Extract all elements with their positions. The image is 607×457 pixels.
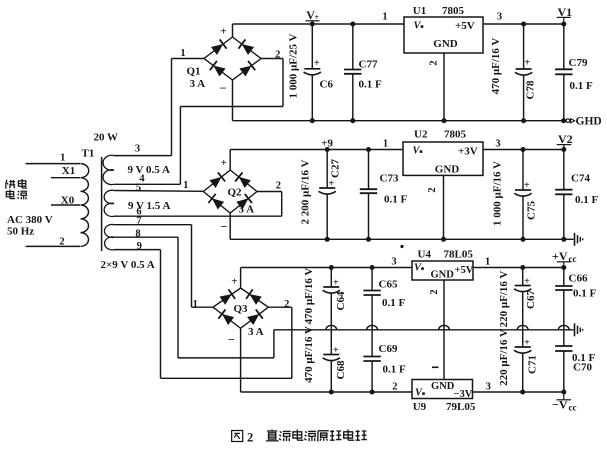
regulator U2 7805 — [403, 129, 483, 176]
svg-text:GHD: GHD — [576, 116, 602, 128]
svg-text:470 μF/16 V: 470 μF/16 V — [303, 326, 315, 383]
label 9 V 0.5 A — [128, 164, 170, 176]
svg-text:2 200 μF/16 V: 2 200 μF/16 V — [300, 159, 312, 224]
wire winding9 to Q3 pin2 — [114, 250, 292, 379]
bridge rectifier Q1 — [180, 26, 280, 96]
wire winding3 to Q1 pin1 — [114, 59, 204, 156]
label 2x9 V 0.5 A — [101, 259, 155, 271]
label 470 uF/16 V C64 — [303, 268, 315, 325]
label C66 value — [573, 288, 597, 300]
svg-text:C65: C65 — [379, 279, 398, 291]
middle ground symbol — [564, 233, 583, 246]
node +Vcc — [552, 249, 577, 270]
label C74 value — [575, 194, 599, 206]
svg-text:−3V: −3V — [454, 389, 473, 400]
node V+ — [306, 8, 320, 27]
node V2 — [557, 132, 573, 152]
capacitor C64 — [323, 265, 347, 330]
label T1 — [82, 148, 95, 160]
svg-text:Q3: Q3 — [234, 303, 249, 315]
node -Vcc — [552, 392, 577, 413]
svg-text:9 V 0.5 A: 9 V 0.5 A — [128, 164, 170, 176]
svg-text:X0: X0 — [61, 194, 75, 206]
svg-text:7805: 7805 — [442, 5, 465, 17]
svg-text:−: − — [220, 81, 227, 95]
svg-text:470 μF/16 V: 470 μF/16 V — [303, 268, 315, 325]
wire V+ rail — [233, 23, 564, 25]
label 2 200 uF/16 V — [300, 159, 312, 224]
svg-text:2: 2 — [247, 431, 253, 445]
capacitor C79 — [555, 24, 572, 123]
svg-text:cc: cc — [569, 254, 577, 264]
wire U1 pin 2 to ground rail — [442, 53, 447, 123]
transformer T1 core — [101, 157, 103, 251]
svg-text:3 A: 3 A — [190, 78, 206, 90]
wire hop C64 column — [326, 325, 337, 329]
wire Q3 plus to +Vcc rail — [240, 268, 242, 289]
wire +9 rail — [230, 149, 564, 151]
svg-text:1: 1 — [485, 256, 490, 267]
svg-text:GND: GND — [431, 270, 455, 281]
label X1 — [62, 165, 75, 177]
svg-text:C6: C6 — [320, 79, 334, 91]
svg-text:AC 380 V: AC 380 V — [7, 214, 53, 226]
capacitor C67 — [514, 265, 537, 330]
label secondary 9 — [137, 241, 142, 252]
svg-text:1: 1 — [180, 48, 185, 59]
label 220 uF/16 V C67 — [498, 271, 510, 328]
label C70 — [573, 362, 592, 374]
wire hop C67 column — [517, 325, 528, 329]
svg-text:7805: 7805 — [444, 129, 467, 141]
svg-text:C70: C70 — [573, 362, 592, 374]
svg-text:U1: U1 — [413, 5, 426, 17]
wire middle ground rail — [230, 238, 564, 240]
label C65 value — [382, 297, 406, 309]
svg-text:0.1 F: 0.1 F — [575, 194, 599, 206]
label C74 — [571, 173, 590, 185]
label secondary 8 — [135, 228, 140, 239]
wire 0V rail — [274, 329, 574, 331]
svg-text:+: + — [524, 58, 530, 69]
svg-text:C79: C79 — [569, 57, 588, 69]
label U1 pin 1 — [382, 12, 387, 23]
wire hop regulator column — [439, 325, 450, 329]
svg-text:C73: C73 — [380, 173, 399, 185]
label C69 — [379, 343, 398, 355]
label 470 uF/16 V top — [490, 38, 502, 95]
capacitor C70 — [555, 330, 572, 395]
wire Q1 plus to V+ rail — [232, 24, 234, 37]
svg-text:3: 3 — [391, 256, 396, 267]
capacitor C74 — [555, 150, 572, 242]
svg-text:2: 2 — [276, 180, 281, 191]
bridge rectifier Q2 — [183, 157, 281, 234]
wire winding8 center tap to 0V rail — [114, 237, 274, 358]
label U2 pin 3 — [495, 139, 500, 150]
svg-text:+3V: +3V — [458, 146, 478, 158]
svg-text:C67: C67 — [525, 290, 537, 309]
label secondary 3 — [135, 144, 140, 155]
svg-text:1: 1 — [183, 180, 188, 191]
svg-text:V: V — [413, 146, 421, 157]
label secondary 7 — [136, 215, 141, 226]
label C66 — [569, 273, 588, 285]
label C77 — [359, 59, 378, 71]
node +9 — [321, 137, 333, 152]
regulator U4 78L05 — [412, 249, 474, 281]
label U9 pin 2 — [392, 382, 397, 393]
svg-text:3: 3 — [497, 12, 502, 23]
capacitor C66 — [555, 268, 572, 330]
label secondary 5 — [136, 183, 141, 194]
svg-text:20 W: 20 W — [94, 131, 119, 143]
node C6 ground — [310, 118, 315, 123]
svg-text:GND: GND — [431, 381, 455, 392]
transformer T1 primary winding — [26, 164, 89, 247]
svg-text:1: 1 — [383, 139, 388, 150]
svg-text:+: + — [524, 180, 530, 191]
label U1 pin 3 — [497, 12, 502, 23]
terminal GHD — [566, 116, 602, 128]
svg-text:3 A: 3 A — [248, 326, 264, 338]
svg-text:Q2: Q2 — [228, 187, 243, 199]
label 20 W — [94, 131, 119, 143]
svg-text:+: + — [524, 276, 530, 287]
label U4 pin 1 — [485, 256, 490, 267]
svg-text:50 Hz: 50 Hz — [7, 225, 34, 237]
wire +Vcc rail right — [473, 267, 564, 269]
label 1 000 uF/25 V — [288, 33, 300, 98]
wire Q2 plus to +9 rail — [229, 150, 231, 171]
capacitor C65 — [363, 265, 380, 330]
wire top ground rail — [233, 120, 564, 122]
svg-text:C27: C27 — [330, 159, 342, 178]
svg-text:9: 9 — [137, 241, 142, 252]
svg-text:C66: C66 — [569, 273, 588, 285]
svg-text:78L05: 78L05 — [444, 249, 474, 261]
label 220 uF/16 V C71 — [498, 329, 510, 386]
svg-text:3: 3 — [495, 139, 500, 150]
svg-text:2: 2 — [284, 299, 289, 310]
label primary terminal 1 — [60, 153, 65, 164]
svg-text:C75: C75 — [526, 201, 538, 220]
svg-text:3: 3 — [486, 381, 491, 392]
label AC 380 V — [7, 214, 53, 226]
svg-text:−: − — [221, 220, 228, 234]
label U4 pin 3 — [391, 256, 396, 267]
svg-text:C69: C69 — [379, 343, 398, 355]
svg-text:+: + — [231, 276, 237, 288]
svg-text:−V: −V — [552, 398, 568, 412]
svg-text:C74: C74 — [571, 173, 590, 185]
label supply chinese — [6, 179, 27, 199]
label U1 pin 2 — [429, 60, 440, 65]
svg-text:+: + — [328, 178, 334, 189]
label C69 value — [383, 364, 407, 376]
svg-text:1: 1 — [60, 153, 65, 164]
label C70 value — [572, 352, 596, 364]
transformer T1 secondary winding 7-8-9 — [104, 224, 114, 249]
svg-text:470 μF/16 V: 470 μF/16 V — [490, 38, 502, 95]
svg-text:V: V — [414, 21, 422, 32]
svg-text:V: V — [415, 388, 423, 399]
svg-text:+5V: +5V — [455, 20, 475, 32]
node V1 — [557, 5, 572, 27]
wire winding6 to Q2 pin2 — [114, 192, 282, 217]
wire -Vcc rail right — [473, 391, 564, 393]
label U9 GND pin — [432, 366, 439, 368]
wire hop C66 column — [558, 325, 569, 329]
svg-text:+: + — [333, 345, 339, 356]
svg-text:220 μF/16 V: 220 μF/16 V — [498, 329, 510, 386]
bottom ground symbol — [575, 323, 583, 336]
svg-text:C64: C64 — [335, 291, 347, 310]
capacitor C75 — [514, 147, 537, 242]
svg-text:V: V — [414, 263, 422, 274]
svg-text:+: + — [524, 338, 530, 349]
svg-text:0.1 F: 0.1 F — [382, 297, 406, 309]
svg-text:+: + — [221, 157, 227, 169]
wire hop C65 column — [367, 325, 378, 329]
regulator U9 79L05 — [412, 380, 476, 414]
label secondary 6 — [136, 206, 141, 217]
label 470 uF/16 V C68 — [303, 326, 315, 383]
label C79 — [569, 57, 588, 69]
svg-text:Q1: Q1 — [187, 66, 201, 78]
svg-text:U9: U9 — [413, 401, 427, 413]
svg-text:U4: U4 — [418, 249, 432, 261]
wire U4 pin 2 to U9 GND — [443, 280, 445, 380]
svg-text:0.1 F: 0.1 F — [573, 288, 597, 300]
svg-text:+: + — [220, 26, 226, 38]
capacitor C78 — [515, 22, 537, 124]
capacitor C68 — [323, 330, 347, 395]
caption figure 2 — [232, 430, 367, 445]
svg-text:2×9 V 0.5 A: 2×9 V 0.5 A — [101, 259, 155, 271]
svg-text:+: + — [314, 58, 320, 69]
svg-text:2: 2 — [429, 60, 440, 65]
capacitor C71 — [514, 330, 539, 395]
svg-text:0.1 F: 0.1 F — [383, 364, 407, 376]
wire winding4 to Q1 pin2 — [114, 59, 283, 185]
label X0 — [61, 194, 75, 206]
svg-text:220 μF/16 V: 220 μF/16 V — [498, 271, 510, 328]
svg-text:C68: C68 — [335, 360, 347, 379]
svg-text:1 000 μF/16 V: 1 000 μF/16 V — [492, 161, 504, 226]
capacitor C27 — [319, 150, 342, 242]
svg-text:GND: GND — [433, 38, 458, 50]
svg-text:2: 2 — [392, 382, 397, 393]
stray mark — [400, 245, 403, 248]
label C73 value — [384, 194, 408, 206]
transformer T1 secondary winding 3-4 — [103, 155, 114, 184]
svg-text:0.1 F: 0.1 F — [570, 80, 594, 92]
wire winding7 to Q3 pin1 — [114, 225, 213, 308]
svg-text:2: 2 — [275, 49, 280, 60]
svg-text:0.1 F: 0.1 F — [359, 78, 383, 90]
svg-text:V2: V2 — [558, 132, 573, 146]
svg-text:X1: X1 — [62, 165, 75, 177]
wire Q2 minus to middle ground rail — [229, 213, 231, 239]
svg-text:GND: GND — [435, 163, 460, 175]
svg-text:T1: T1 — [82, 148, 95, 160]
svg-text:2: 2 — [427, 187, 438, 192]
label U2 pin 2 — [427, 187, 438, 192]
svg-text:1 000 μF/25 V: 1 000 μF/25 V — [288, 33, 300, 98]
svg-text:2: 2 — [429, 289, 440, 294]
bridge rectifier Q3 — [193, 276, 290, 347]
wire -Vcc rail left — [241, 391, 412, 393]
wire +Vcc rail left — [241, 267, 412, 269]
wire Q1 minus to ground rail — [232, 80, 234, 121]
regulator U1 7805 — [404, 5, 483, 53]
svg-text:9 V 1.5 A: 9 V 1.5 A — [128, 200, 170, 212]
wire winding5 to Q2 pin1 — [114, 190, 203, 193]
svg-text:1: 1 — [193, 299, 198, 310]
label U2 pin 1 — [383, 139, 388, 150]
svg-text:2: 2 — [59, 237, 64, 248]
label secondary 4 — [139, 174, 145, 185]
svg-text:3 A: 3 A — [239, 204, 255, 216]
svg-text:+V: +V — [552, 249, 568, 263]
svg-text:+5V: +5V — [455, 265, 474, 276]
wire Q3 minus to -Vcc rail — [240, 328, 242, 392]
label 9 V 1.5 A — [128, 200, 170, 212]
label 1 000 uF/16 V — [492, 161, 504, 226]
svg-text:+: + — [333, 277, 339, 288]
label U4 pin 2 — [429, 289, 440, 294]
capacitor C73 — [360, 147, 377, 242]
svg-text:+9: +9 — [321, 137, 333, 149]
wire U2 pin 2 to middle ground rail — [441, 175, 446, 241]
svg-text:C78: C78 — [525, 80, 537, 99]
label primary terminal 2 — [59, 237, 64, 248]
label C73 — [380, 173, 399, 185]
svg-text:0.1 F: 0.1 F — [384, 194, 408, 206]
label C79 value — [570, 80, 594, 92]
svg-text:U2: U2 — [414, 129, 428, 141]
capacitor C69 — [363, 330, 380, 395]
transformer T1 secondary winding 5-6 — [104, 190, 114, 216]
svg-text:−: − — [228, 333, 235, 347]
svg-text:C71: C71 — [527, 355, 539, 374]
capacitor C6 — [304, 24, 334, 121]
label 50 Hz — [7, 225, 34, 237]
svg-text:cc: cc — [569, 403, 577, 413]
label C77 value — [359, 78, 383, 90]
label U9 pin 3 — [486, 381, 491, 392]
capacitor C77 — [344, 22, 361, 124]
svg-text:79L05: 79L05 — [446, 401, 476, 413]
svg-text:1: 1 — [382, 12, 387, 23]
label C65 — [379, 279, 398, 291]
svg-text:C77: C77 — [359, 59, 378, 71]
svg-text:3: 3 — [135, 144, 140, 155]
